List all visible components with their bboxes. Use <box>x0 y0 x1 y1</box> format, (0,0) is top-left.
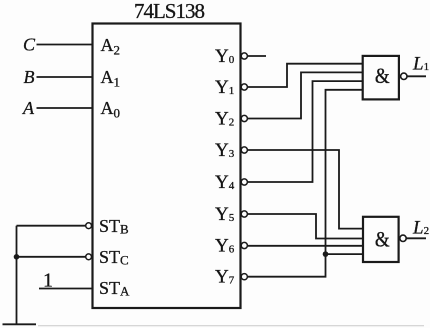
svg-text:&: & <box>375 228 390 251</box>
svg-text:C: C <box>23 35 36 55</box>
svg-text:74LS138: 74LS138 <box>134 0 205 23</box>
svg-text:&: & <box>375 65 390 88</box>
svg-text:A: A <box>22 98 35 118</box>
svg-text:1: 1 <box>43 270 53 292</box>
svg-text:B: B <box>24 67 35 87</box>
